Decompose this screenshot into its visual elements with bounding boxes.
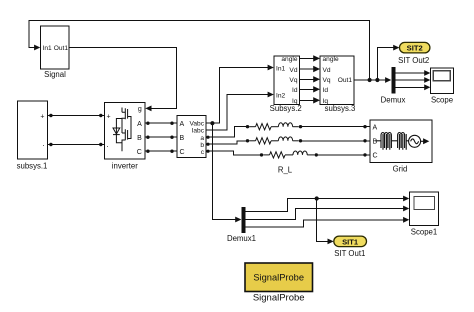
svg-text:b: b [200,142,204,149]
wire Demux1 out2 to Scope1 [246,209,404,220]
text ports of measurement block [180,121,205,156]
arrowhead into SIT1 [328,239,334,245]
junction node to SIT1 tap [315,196,319,200]
svg-text:.: . [107,140,109,149]
svg-text:Id: Id [292,87,298,94]
svg-text:+: + [40,113,44,120]
svg-text:SIT2: SIT2 [407,44,423,53]
block Scope [431,68,454,94]
wire Demux out2 to Scope [395,79,425,81]
svg-text:+: + [107,114,111,121]
svg-text:Vd: Vd [289,67,297,74]
svg-text:Vd: Vd [323,67,331,74]
svg-text:SignalProbe: SignalProbe [253,293,305,304]
svg-text:A: A [373,125,378,132]
svg-text:Subsys.2: Subsys.2 [270,104,302,113]
svg-text:Signal: Signal [44,70,66,79]
block Signal [41,26,70,69]
node dots on - wire [49,143,102,146]
arrowhead into Demux1 [235,217,241,223]
wire tap to SIT1 [317,199,328,242]
arrowhead into In1 [268,65,274,71]
svg-text:Vq: Vq [323,77,331,84]
svg-text:.: . [42,139,44,148]
wire c output to R_L phase C [206,151,260,155]
svg-text:SIT Out1: SIT Out1 [334,249,365,258]
resistor-inductor branch R_L phase B [246,137,302,144]
block Scope1 [409,192,438,225]
svg-text:Vq: Vq [289,77,297,84]
svg-text:Demux: Demux [381,95,406,104]
svg-text:In2: In2 [276,92,285,99]
block subsys.3 [320,56,354,105]
wire Subsys.2 Id to subsys.3 [300,88,315,90]
inverter icon diode D1 [113,128,120,135]
svg-text:In1: In1 [43,45,52,52]
Grid icon coils and AC source [376,133,430,150]
goto tag SIT2 [400,42,430,53]
demux Demux1 [242,207,246,233]
svg-text:a: a [200,135,204,142]
svg-text:SIT Out2: SIT Out2 [398,56,429,65]
svg-text:inverter: inverter [112,161,138,170]
wire a output to R_L phase A [206,127,246,138]
svg-text:B: B [137,135,142,142]
wire R_L phase A to Grid A [302,126,370,128]
wire Demux1 out3 to Scope1 [246,220,404,227]
text ports of subsys.3 [323,56,353,105]
svg-text:In1: In1 [276,65,285,72]
text ports of inverter [107,106,143,156]
svg-text:Vabc: Vabc [189,121,204,128]
arrowhead into In2 [268,92,274,98]
svg-text:Grid: Grid [393,165,408,174]
wire Demux out1 to Scope [395,72,425,74]
wire subsys.1 + to inverter + [48,115,105,117]
svg-text:Demux1: Demux1 [227,234,256,243]
wire Demux1 out1 to Scope1 [246,199,404,212]
text ports of Subsys.2 [276,56,298,105]
resistor-inductor branch R_L phase C [260,151,318,158]
svg-text:angle: angle [281,56,297,63]
wire Signal Out1 to inverter g [69,48,177,109]
wire tap to SIT2 [377,48,393,80]
wire inverter A to measurement A [145,122,177,124]
wire Subsys.2 Vq to subsys.3 [300,78,315,80]
junction node to SIT2 tap [375,78,379,82]
svg-text:Scope: Scope [431,95,453,104]
text ports of Grid [373,125,378,160]
wire feedback loop subsys.3 Out1 to Signal In1 [29,21,370,81]
svg-text:SIT1: SIT1 [342,237,359,246]
junction node at subsys.3 Out1 line [368,78,372,82]
svg-text:C: C [373,153,378,160]
wire inverter C to measurement C [145,150,177,152]
block Grid [370,120,432,163]
svg-text:A: A [180,121,185,128]
wire Iabc output to Subsys.2 In2 [206,95,268,131]
svg-text:angle: angle [323,56,339,63]
block SignalProbe [245,263,313,292]
arrowhead into SIT2 [393,45,399,51]
arrowhead into inverter g (pointing left) [145,106,151,112]
block three-phase V-I measurement [177,116,206,158]
svg-text:A: A [137,121,142,128]
wire subsys.3 Out1 to Demux [354,79,386,81]
goto tag SIT1 [334,236,367,247]
wire b output to R_L phase B [206,141,246,144]
wire Vabc junction down to Demux1 [212,123,235,219]
wire Vabc output to Subsys.2 In1 [206,68,268,124]
svg-text:C: C [137,149,142,156]
node dots on + wire [49,114,102,117]
svg-text:B: B [373,139,378,146]
wire inverter B to measurement B [145,136,177,138]
svg-text:Out1: Out1 [338,77,353,84]
block subsys.1 [18,101,48,159]
svg-text:SignalProbe: SignalProbe [253,273,304,283]
block inverter [105,103,146,160]
svg-text:subsys.1: subsys.1 [17,161,48,170]
wire subsys.1 - to inverter - [48,144,105,146]
svg-text:R_L: R_L [278,165,293,174]
junction node on Vabc wire [210,121,214,125]
svg-text:Iabc: Iabc [192,128,205,135]
svg-text:g: g [138,106,142,113]
resistor-inductor branch R_L phase A [246,123,302,130]
arrowhead into Signal In1 [34,45,40,51]
wire R_L phase B to Grid B [302,140,370,142]
wire Subsys.2 Iq to subsys.3 [300,99,315,101]
demux Demux [392,67,396,94]
wire R_L phase C to Grid C [318,154,370,156]
svg-text:subsys.3: subsys.3 [325,104,356,113]
inverter icon IGBT leg [116,108,131,152]
svg-text:Id: Id [323,87,329,94]
svg-text:Out1: Out1 [54,45,69,52]
wire Subsys.2 Vd to subsys.3 [300,68,315,70]
svg-text:Scope1: Scope1 [411,228,437,237]
text In1 Out1 (Signal ports) [43,45,69,52]
wire Demux out3 to Scope [395,86,425,88]
wire Subsys.2 angle to subsys.3 [300,57,315,59]
svg-text:C: C [180,149,185,156]
svg-text:B: B [180,135,185,142]
block Subsys.2 [274,56,300,105]
